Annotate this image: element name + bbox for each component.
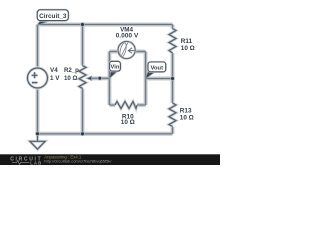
svg-text:10 Ω: 10 Ω (121, 119, 135, 126)
node Vout right junction (170, 76, 175, 81)
node wiper junction (98, 76, 102, 80)
component labels (50, 27, 195, 126)
svg-text:Circuit_3: Circuit_3 (39, 13, 67, 20)
node ground junction (35, 132, 40, 137)
voltmeter VM4 (118, 41, 135, 58)
node label Circuit_3 (37, 10, 68, 25)
svg-text:0.000 V: 0.000 V (116, 33, 139, 40)
svg-text:10 Ω: 10 Ω (180, 114, 194, 121)
node R2_p bottom junction (80, 132, 85, 137)
wire soft halo layers (38, 25, 173, 134)
svg-text:LAB: LAB (30, 160, 42, 165)
svg-text:http://circuitlab.com/c/7ba78b: http://circuitlab.com/c/7ba78bvq65t5k/ (44, 158, 112, 163)
svg-text:10 Ω: 10 Ω (181, 45, 195, 52)
svg-text:Vin: Vin (111, 65, 120, 71)
node label Vout (145, 62, 165, 79)
svg-text:R2_p: R2_p (64, 67, 79, 74)
footer bar (0, 154, 220, 165)
svg-text:Vout: Vout (151, 65, 164, 71)
svg-text:10 Ω: 10 Ω (64, 75, 77, 82)
R2_p wiper arrow (86, 76, 91, 80)
svg-text:V4: V4 (50, 67, 58, 74)
node dots (35, 22, 175, 136)
svg-text:1 V: 1 V (50, 75, 60, 82)
node R2_p top junction (80, 22, 85, 27)
component soft halo layers (28, 29, 177, 150)
node label Vin (109, 61, 120, 78)
